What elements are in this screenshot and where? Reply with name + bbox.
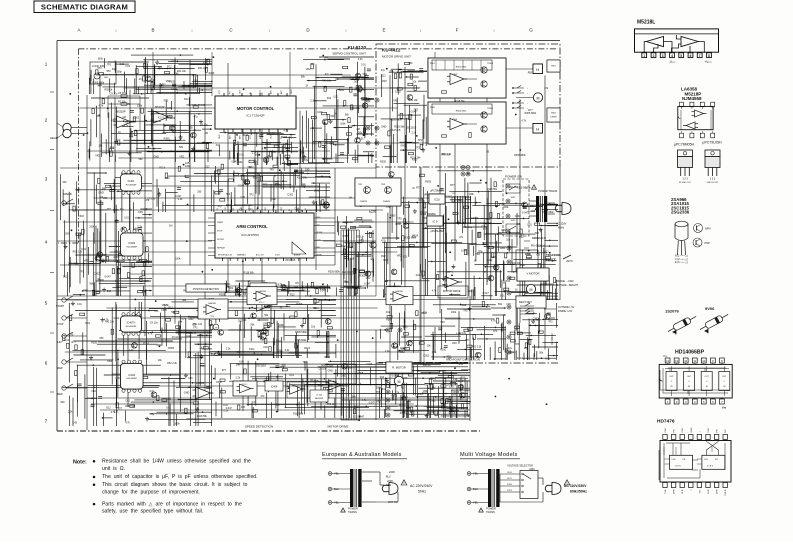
svg-text:M: M [537,96,540,100]
svg-text:GND: GND [691,427,693,432]
svg-text:R77: R77 [465,339,470,342]
svg-text:IC5: IC5 [267,156,271,159]
svg-text:TP3: TP3 [535,232,540,235]
svg-text:C45: C45 [534,237,539,240]
svg-text:0.01: 0.01 [285,349,290,352]
svg-text:47μ: 47μ [381,69,386,72]
svg-text:M5218P: M5218P [116,110,126,114]
svg-text:R206: R206 [209,72,215,75]
svg-text:60Hz/50Hz: 60Hz/50Hz [570,490,587,494]
svg-text:IC401: IC401 [128,180,135,183]
svg-text:R41 10k: R41 10k [198,67,208,70]
svg-text:REPEAT: REPEAT [217,247,226,250]
svg-text:0.047: 0.047 [232,161,239,164]
svg-text:330k: 330k [98,58,104,61]
svg-text:R305: R305 [164,138,170,141]
svg-text:VR2: VR2 [382,80,387,83]
svg-text:TP3: TP3 [515,343,520,346]
svg-text:TP2: TP2 [376,391,381,394]
svg-text:LIFT: LIFT [57,340,63,344]
svg-text:117V: 117V [507,478,512,480]
svg-text:D12: D12 [461,380,466,383]
svg-text:R118 56k: R118 56k [297,177,308,180]
svg-text:TP2: TP2 [106,70,111,73]
svg-text:R302 680k: R302 680k [456,67,467,69]
svg-text:0.01: 0.01 [361,63,366,66]
svg-text:110V: 110V [507,472,512,474]
svg-text:HD14066BP: HD14066BP [126,326,137,328]
svg-text:R12: R12 [167,65,172,68]
svg-text:C305: C305 [143,280,149,283]
svg-text:0.01: 0.01 [124,217,129,220]
svg-text:0.01: 0.01 [545,357,550,360]
svg-text:100k: 100k [314,190,320,193]
svg-text:0.047: 0.047 [185,335,192,338]
svg-text:330k: 330k [376,386,382,389]
svg-text:C12 0.047: C12 0.047 [353,415,365,418]
svg-text:C302: C302 [430,400,436,403]
svg-text:R114: R114 [310,379,316,382]
svg-text:330k: 330k [347,366,353,369]
svg-text:6.8k: 6.8k [456,333,461,336]
svg-text:VR2: VR2 [306,68,311,71]
svg-text:R77: R77 [416,187,421,190]
svg-text:GND: GND [188,318,194,321]
svg-text:330: 330 [60,401,65,404]
svg-text:WEDGE →CAM: WEDGE →CAM [556,280,573,283]
svg-text:SERVO CONTROL UNIT: SERVO CONTROL UNIT [332,52,366,56]
svg-text:INSIDE =+5V: INSIDE =+5V [558,310,573,313]
svg-text:100k: 100k [317,111,323,114]
svg-text:AFC: AFC [280,89,283,94]
svg-text:330k: 330k [156,344,162,347]
svg-text:R305: R305 [219,294,225,297]
svg-text:C303: C303 [452,74,458,76]
svg-text:2SC1815: 2SC1815 [68,263,79,266]
svg-text:VR2: VR2 [376,400,381,403]
svg-text:TR305: TR305 [487,108,494,110]
svg-text:R52 2.2k: R52 2.2k [167,362,177,365]
svg-text:Note:: Note: [73,460,87,466]
svg-text:47μ: 47μ [304,159,309,162]
svg-text:1M: 1M [169,224,172,227]
svg-text:POWER TRANS: POWER TRANS [538,189,558,193]
svg-text:100p: 100p [328,385,334,388]
svg-text:100p: 100p [525,187,531,190]
svg-text:C302: C302 [446,196,452,199]
svg-text:IC403: IC403 [128,374,135,377]
svg-text:VR2: VR2 [103,197,108,200]
svg-text:0.047: 0.047 [390,129,397,132]
svg-text:IC2 ½: IC2 ½ [158,116,164,120]
svg-text:4.7k: 4.7k [148,333,153,336]
svg-text:MOTOR DRIVE: MOTOR DRIVE [443,290,461,293]
svg-text:NPN: NPN [705,227,711,231]
svg-text:R41 10k: R41 10k [441,154,451,157]
svg-text:J CK K: J CK K [675,466,682,468]
svg-text:R305 680k: R305 680k [328,270,340,273]
svg-text:0.01: 0.01 [150,390,155,393]
svg-text:1S2076: 1S2076 [665,309,680,314]
svg-text:0.01: 0.01 [85,322,90,325]
svg-text:C9 10u: C9 10u [319,368,327,371]
svg-text:100k: 100k [469,193,475,196]
svg-text:R206: R206 [318,384,324,387]
svg-text:POWER SW: POWER SW [505,175,522,179]
svg-text:D12: D12 [383,259,388,262]
svg-text:R118 56k: R118 56k [410,157,421,160]
svg-text:R41 10k: R41 10k [509,186,519,189]
svg-text:2.2k: 2.2k [226,348,231,351]
svg-text:R12: R12 [382,388,387,391]
svg-text:R114: R114 [487,259,493,262]
svg-text:SCHEMATIC DIAGRAM: SCHEMATIC DIAGRAM [41,2,128,11]
svg-text:0.01: 0.01 [330,142,335,145]
svg-text:PNP: PNP [705,241,711,245]
svg-text:GND: GND [291,89,293,94]
svg-text:NC: NC [725,429,727,433]
svg-text:R93 1k: R93 1k [356,236,364,239]
svg-text:HA13458: HA13458 [315,397,324,400]
svg-text:GND: GND [219,134,221,139]
svg-text:R305 680k: R305 680k [514,154,526,157]
svg-text:TRANS: TRANS [348,510,357,514]
svg-text:M: M [530,288,533,292]
svg-text:PR: PR [674,429,676,432]
svg-text:330: 330 [314,287,319,290]
svg-text:100k: 100k [396,222,402,225]
svg-text:4.7k: 4.7k [521,119,526,122]
svg-text:R41 10k: R41 10k [177,70,187,73]
svg-text:LED: LED [104,77,109,79]
svg-text:F: F [456,28,459,33]
svg-text:IC5: IC5 [295,282,299,285]
svg-text:330: 330 [394,346,399,349]
svg-text:GND: GND [65,232,71,235]
svg-text:HD14066BP: HD14066BP [127,378,138,380]
svg-text:4.7k: 4.7k [381,239,386,242]
svg-text:330: 330 [236,363,241,366]
svg-text:TP2: TP2 [397,218,402,221]
svg-text:IC5: IC5 [294,286,298,289]
svg-text:European & Australian Models: European & Australian Models [322,452,402,458]
svg-text:RETURN ACC IN: RETURN ACC IN [218,254,233,257]
svg-text:R12: R12 [461,377,466,380]
svg-text:C45: C45 [73,422,78,425]
svg-text:C302: C302 [101,254,107,257]
svg-text:TP2: TP2 [270,169,275,172]
svg-text:D12: D12 [363,73,368,76]
svg-text:M5218L: M5218L [637,20,655,26]
svg-text:C9 10u: C9 10u [200,124,208,127]
svg-text:4.7k: 4.7k [125,422,130,425]
svg-text:HD14066BP: HD14066BP [675,350,705,356]
svg-text:IC 9: IC 9 [433,220,438,224]
svg-text:CPR: CPR [717,489,719,494]
svg-text:R12: R12 [164,100,169,103]
svg-text:HEAD: HEAD [50,136,58,140]
svg-text:2.2k: 2.2k [385,350,390,353]
svg-text:GND: GND [381,126,387,129]
svg-text:TP2: TP2 [418,139,423,142]
svg-text:R41 10k: R41 10k [322,80,332,83]
svg-text:PR: PR [717,429,719,432]
svg-text:330k: 330k [89,226,95,229]
svg-text:1 2 3: 1 2 3 [682,178,688,181]
svg-text:100k: 100k [171,59,177,62]
svg-text:!: ! [343,509,344,513]
svg-text:A: A [77,28,80,33]
svg-text:R77: R77 [450,184,455,187]
svg-text:J CK K: J CK K [707,466,714,468]
svg-text:GND: GND [341,375,347,378]
svg-text:C302: C302 [226,204,232,207]
svg-text:VR2: VR2 [491,256,496,259]
svg-text:TP2: TP2 [440,321,445,324]
svg-text:C302: C302 [113,317,119,320]
svg-text:VR2: VR2 [446,356,451,359]
svg-text:D12: D12 [416,274,421,277]
svg-text:R118 56k: R118 56k [125,405,136,408]
svg-text:μPC78M05H: μPC78M05H [674,143,695,147]
svg-text:REST DET: REST DET [519,300,532,304]
svg-text:VR2: VR2 [84,260,89,263]
svg-text:IC 2A: IC 2A [316,394,322,397]
svg-text:100k: 100k [525,253,531,256]
svg-text:LIFTER: LIFTER [217,239,224,241]
svg-text:!: ! [403,481,404,485]
svg-text:4.7k: 4.7k [362,399,367,402]
svg-text:V MOTOR: V MOTOR [526,272,539,276]
svg-text:IC404: IC404 [271,386,278,389]
svg-text:R305: R305 [391,394,397,397]
svg-text:C302: C302 [471,217,477,220]
svg-text:SCL: SCL [233,208,235,212]
svg-text:0.047: 0.047 [364,282,371,285]
svg-text:47μ: 47μ [478,250,483,253]
svg-text:IC402: IC402 [128,242,135,245]
svg-text:MOTOR DRIVE: MOTOR DRIVE [327,424,348,428]
svg-text:START: START [217,221,224,224]
svg-text:IC407½: IC407½ [127,321,137,325]
svg-text:GND: GND [98,192,104,195]
svg-text:R12: R12 [184,98,189,101]
svg-text:D12: D12 [341,245,346,248]
svg-text:0.01: 0.01 [178,198,183,201]
svg-text:C45: C45 [115,377,120,380]
svg-text:VR2: VR2 [424,193,429,196]
svg-text:R118 56k: R118 56k [197,415,208,418]
svg-text:12: 12 [684,359,687,363]
svg-text:GND: GND [171,88,177,91]
svg-text:HD14066BP: HD14066BP [127,247,138,249]
svg-text:LA6358: LA6358 [395,290,403,293]
svg-text:R12: R12 [327,97,332,100]
svg-text:/ANTI: /ANTI [566,259,573,263]
svg-text:330: 330 [99,337,104,340]
svg-text:R114: R114 [143,343,149,346]
svg-text:VTX: VTX [219,89,221,94]
svg-text:OUTSIDE=−5V: OUTSIDE=−5V [558,306,575,309]
svg-text:2.2k: 2.2k [236,376,241,379]
svg-text:NJM4558: NJM4558 [682,96,702,101]
svg-text:R118 56k: R118 56k [293,413,304,416]
svg-text:R305 680k: R305 680k [404,237,416,240]
svg-text:CLR: CLR [672,459,677,461]
svg-text:R41 10k: R41 10k [105,320,115,323]
svg-text:AC 220V/240V: AC 220V/240V [410,484,433,488]
svg-text:VR2: VR2 [229,287,234,290]
svg-text:R305: R305 [343,235,349,238]
svg-text:R305 680k: R305 680k [542,211,554,214]
svg-text:VR2: VR2 [453,393,458,396]
svg-text:VDD: VDD [663,355,668,358]
svg-text:REP: REP [57,392,63,396]
svg-text:4.7k: 4.7k [99,104,104,107]
svg-text:IC5: IC5 [531,210,535,213]
svg-text:AC 110V/230V: AC 110V/230V [564,484,587,488]
svg-text:2.2k: 2.2k [353,269,358,272]
svg-text:H: H [536,67,539,72]
svg-text:The unit of capacitor is: The unit of capacitor is μF, P is pF unl… [102,474,258,480]
svg-text:C45: C45 [506,303,511,306]
svg-text:R305: R305 [380,161,386,164]
svg-text:330: 330 [259,135,264,138]
svg-text:MOTOR CONTROL: MOTOR CONTROL [237,106,275,111]
svg-text:C9 10u: C9 10u [420,211,428,214]
svg-text:R93 1k: R93 1k [267,133,275,136]
svg-text:2.2k: 2.2k [310,99,315,102]
svg-text:0.047: 0.047 [105,276,112,279]
svg-text:TP2: TP2 [415,147,420,150]
svg-text:TP2: TP2 [157,66,162,69]
svg-text:RU-5020-A: RU-5020-A [531,244,545,248]
svg-text:IC5: IC5 [403,255,407,258]
svg-text:330: 330 [117,268,122,271]
svg-text:47μ: 47μ [216,144,221,147]
svg-text:47μ: 47μ [172,336,177,339]
svg-text:POSITION DETECTION: POSITION DETECTION [193,288,219,291]
svg-text:KU-5020-2: KU-5020-2 [371,249,373,260]
svg-text:0.047: 0.047 [320,290,327,293]
svg-text:TP2: TP2 [107,63,112,66]
svg-text:220V: 220V [507,484,513,486]
svg-text:C302: C302 [133,116,139,119]
svg-text:CLR: CLR [708,428,710,433]
svg-text:1M: 1M [349,197,352,200]
svg-text:8: 8 [708,54,710,58]
svg-text:D12: D12 [165,177,170,180]
svg-text:100k: 100k [279,324,285,327]
svg-text:AFC: AFC [228,134,231,139]
svg-text:C9 10u: C9 10u [147,197,155,200]
svg-text:1M: 1M [97,115,100,118]
svg-text:R305: R305 [91,341,97,344]
svg-text:G: G [529,28,533,33]
svg-text:VCC: VCC [250,134,252,139]
svg-text:CPR: CPR [674,489,676,494]
svg-text:ARM CONTROL: ARM CONTROL [236,224,268,229]
svg-text:R206: R206 [114,256,120,259]
svg-text:47μ: 47μ [150,413,155,416]
svg-text:6.8k: 6.8k [239,361,244,364]
svg-text:0.01: 0.01 [359,138,364,141]
svg-text:R12: R12 [506,280,511,283]
svg-text:C302: C302 [458,200,464,203]
svg-text:100k: 100k [451,311,457,314]
svg-text:330k: 330k [175,258,181,261]
svg-text:4.7k: 4.7k [111,411,116,414]
svg-text:4.7k: 4.7k [491,320,496,323]
svg-text:C305: C305 [366,363,372,366]
svg-text:R114: R114 [422,392,428,395]
svg-text:0.01: 0.01 [77,303,82,306]
svg-text:R12: R12 [380,376,385,379]
svg-text:0.047: 0.047 [270,198,277,201]
svg-text:LA6358: LA6358 [208,302,216,305]
svg-text:C302: C302 [533,318,539,321]
svg-text:100p: 100p [117,71,123,74]
svg-text:330k: 330k [503,206,509,209]
svg-text:330: 330 [408,62,413,65]
svg-text:R118 56k: R118 56k [487,188,498,191]
svg-text:GND: GND [328,370,334,373]
svg-text:R305 680k: R305 680k [295,339,307,342]
svg-text:0.047: 0.047 [226,407,233,410]
svg-text:C12 0.047: C12 0.047 [342,271,354,274]
svg-text:R305: R305 [113,209,119,212]
svg-text:C45: C45 [305,168,310,171]
svg-text:R12: R12 [381,255,386,258]
svg-text:TP2: TP2 [414,109,419,112]
svg-text:100p: 100p [198,334,204,337]
svg-text:0.01: 0.01 [403,326,408,329]
svg-text:GND: GND [184,391,190,394]
svg-text:R305 680k: R305 680k [295,331,307,334]
svg-text:R41 10k: R41 10k [409,99,419,102]
svg-text:4.7k: 4.7k [432,290,437,293]
svg-text:330k: 330k [107,360,113,363]
svg-text:CCLR: CCLR [725,489,727,495]
svg-text:STOP: STOP [217,231,223,233]
svg-text:47μ: 47μ [344,280,349,283]
svg-text:R93 1k: R93 1k [105,88,113,91]
svg-text:IC5: IC5 [155,310,159,313]
svg-text:R3 33k: R3 33k [118,101,126,104]
svg-text:REP: REP [57,366,63,370]
svg-text:TP2: TP2 [493,330,498,333]
svg-text:47μ: 47μ [508,347,513,350]
svg-text:330: 330 [189,127,194,130]
svg-text:4.7k: 4.7k [278,283,283,286]
svg-text:3: 3 [662,54,664,58]
svg-text:C302: C302 [216,381,222,384]
svg-text:2: 2 [653,54,655,58]
svg-text:13: 13 [675,359,678,363]
svg-text:0.01: 0.01 [358,58,363,61]
svg-text:4.7k: 4.7k [432,351,437,354]
svg-text:47μ: 47μ [218,205,223,208]
svg-text:R77: R77 [222,369,227,372]
svg-text:IC5: IC5 [203,62,207,65]
svg-text:SW1: SW1 [511,197,517,199]
svg-text:TR303: TR303 [487,63,494,65]
svg-text:ACC OUT: ACC OUT [256,254,265,257]
svg-text:R114: R114 [517,357,523,360]
svg-text:APC: APC [270,89,273,94]
svg-text:R305 680k: R305 680k [93,81,105,84]
svg-text:100k: 100k [468,290,474,293]
